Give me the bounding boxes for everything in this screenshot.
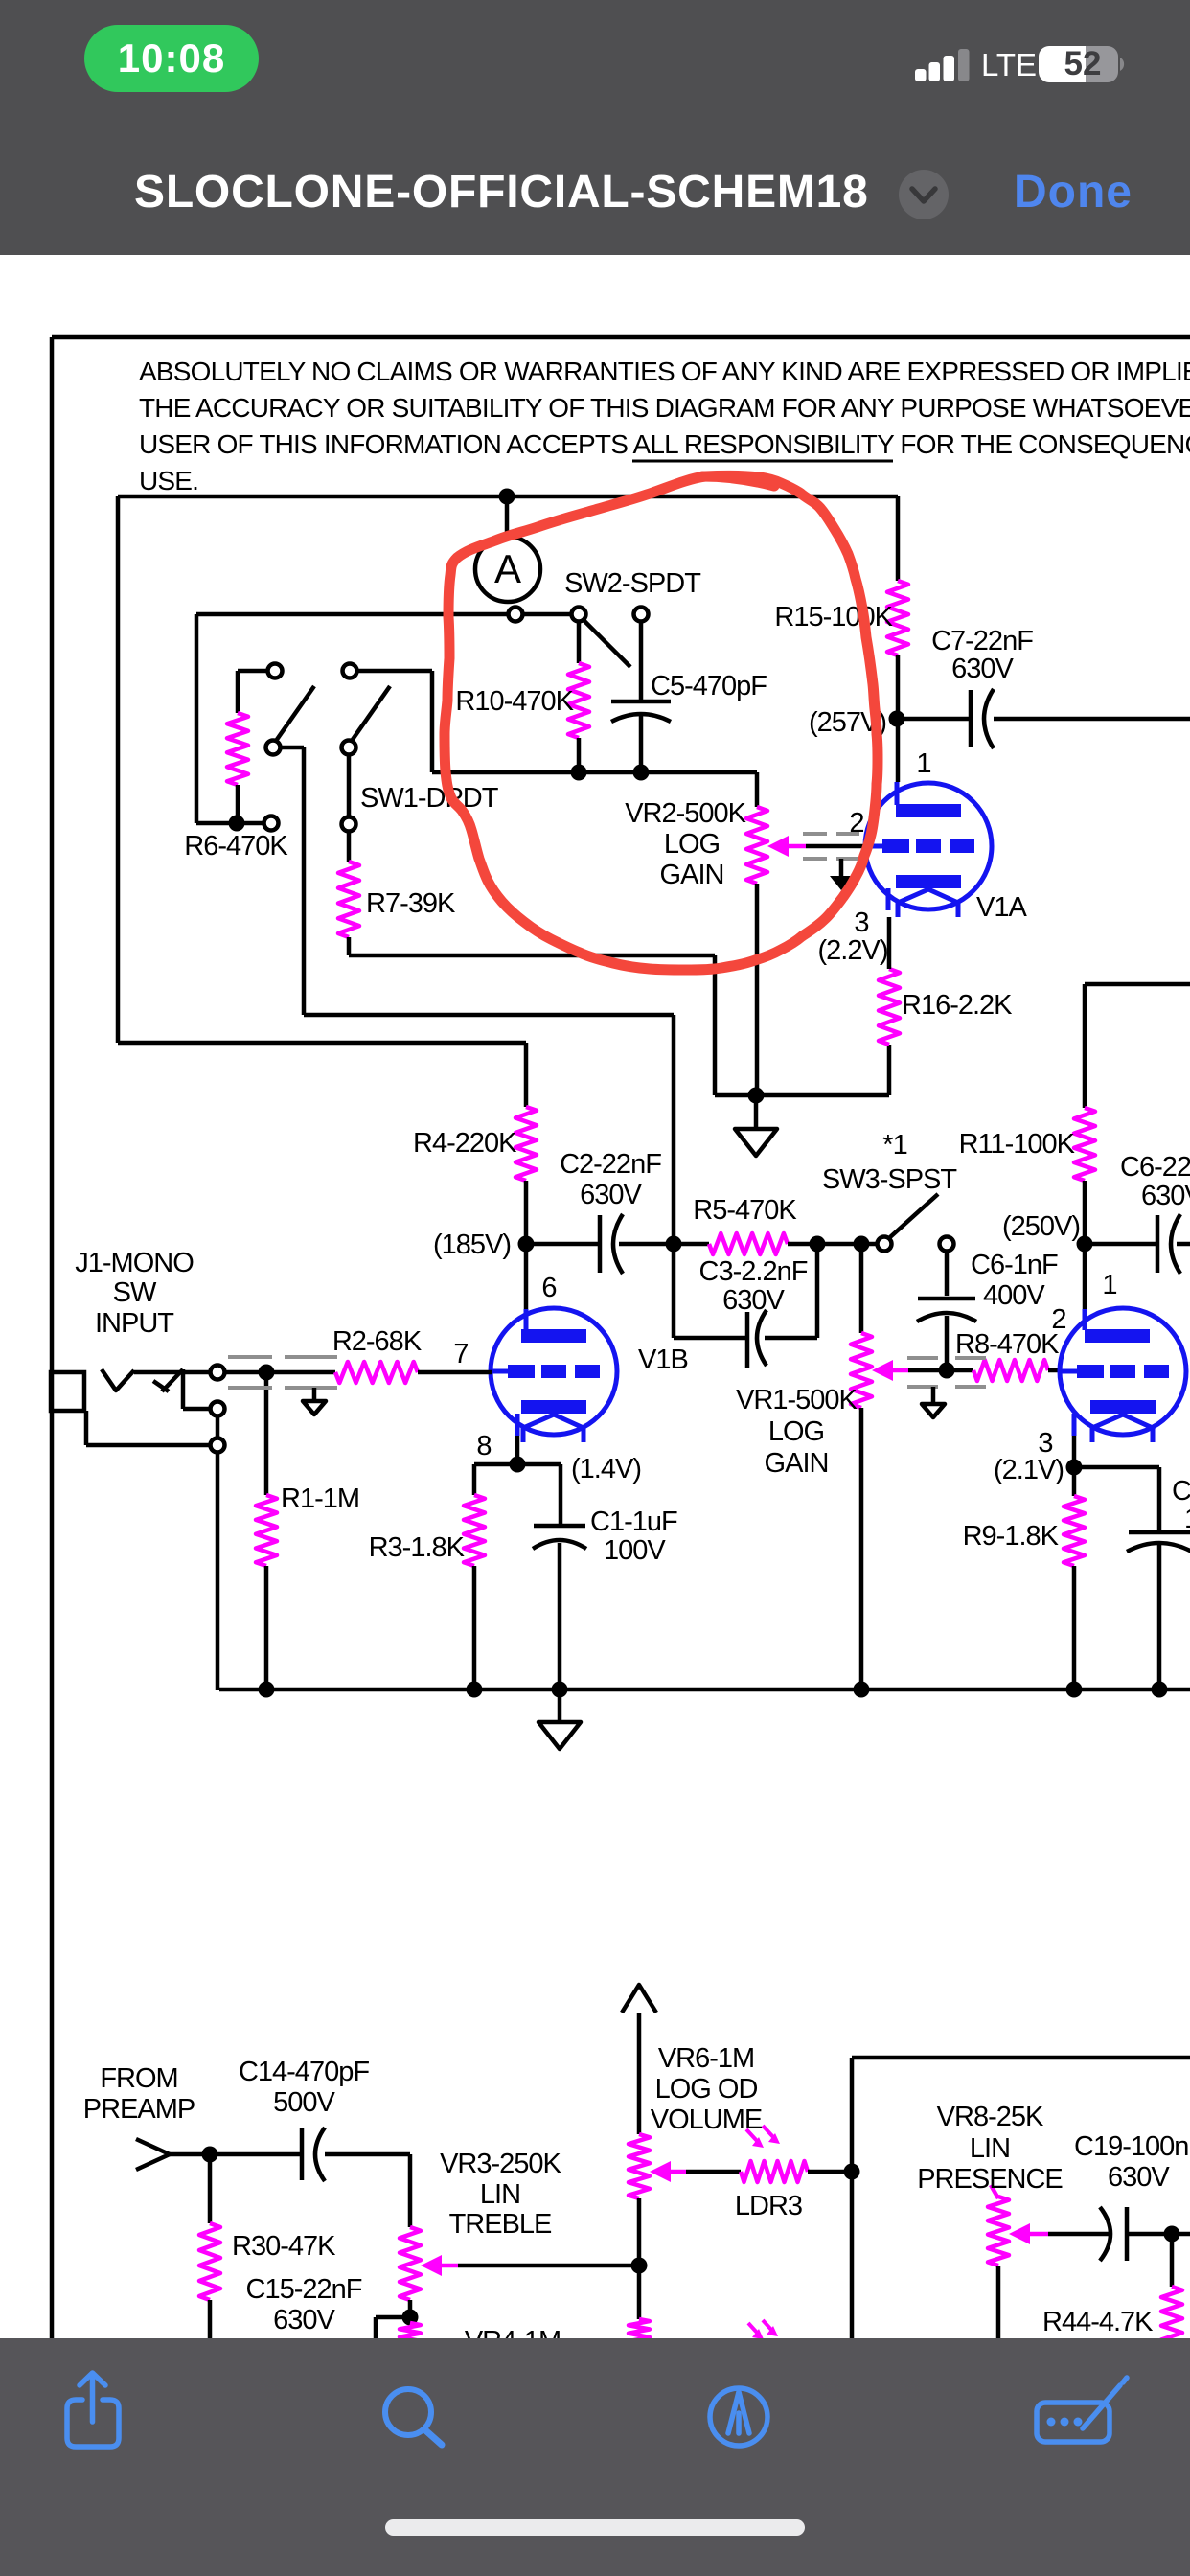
svg-text:VR2-500K: VR2-500K	[625, 798, 746, 829]
svg-text:SW2-SPDT: SW2-SPDT	[564, 568, 701, 599]
svg-text:GAIN: GAIN	[765, 1448, 829, 1479]
svg-text:R4-220K: R4-220K	[413, 1128, 517, 1159]
svg-text:1: 1	[1102, 1270, 1116, 1300]
svg-text:R10-470K: R10-470K	[455, 686, 574, 717]
svg-text:INPUT: INPUT	[95, 1308, 174, 1339]
svg-text:630V: 630V	[1141, 1181, 1190, 1211]
svg-text:LOG: LOG	[664, 829, 720, 860]
svg-text:LTE: LTE	[981, 47, 1037, 82]
svg-text:C6-1nF: C6-1nF	[971, 1250, 1058, 1280]
svg-text:USE.: USE.	[139, 466, 198, 495]
svg-text:THE ACCURACY OR SUITABILITY OF: THE ACCURACY OR SUITABILITY OF THIS DIAG…	[139, 393, 1190, 423]
svg-text:C19-100nF: C19-100nF	[1074, 2131, 1190, 2162]
svg-text:VR1-500K: VR1-500K	[736, 1385, 858, 1415]
svg-text:GAIN: GAIN	[660, 860, 724, 890]
svg-text:LIN: LIN	[480, 2179, 520, 2210]
svg-text:(2.2V): (2.2V)	[818, 935, 888, 966]
svg-text:R44-4.7K: R44-4.7K	[1042, 2307, 1154, 2337]
svg-text:*1: *1	[882, 1130, 906, 1161]
svg-text:PRESENCE: PRESENCE	[917, 2164, 1063, 2195]
svg-text:V1B: V1B	[638, 1345, 688, 1375]
svg-text:V1A: V1A	[976, 892, 1027, 923]
svg-text:400V: 400V	[983, 1280, 1045, 1311]
svg-text:A: A	[494, 546, 521, 591]
svg-text:R6-470K: R6-470K	[184, 831, 288, 862]
svg-text:USER OF THIS INFORMATION ACCEP: USER OF THIS INFORMATION ACCEPTS ALL RES…	[139, 429, 1190, 459]
svg-text:C5-470pF: C5-470pF	[651, 671, 767, 701]
svg-text:R3-1.8K: R3-1.8K	[369, 1532, 466, 1563]
svg-text:(185V): (185V)	[433, 1230, 511, 1260]
svg-text:R8-470K: R8-470K	[955, 1329, 1060, 1360]
svg-text:C15-22nF: C15-22nF	[246, 2274, 362, 2305]
svg-text:PREAMP: PREAMP	[83, 2094, 195, 2125]
svg-text:LDR3: LDR3	[735, 2191, 802, 2221]
svg-text:C6-22nF: C6-22nF	[1120, 1152, 1190, 1183]
svg-text:SW3-SPST: SW3-SPST	[822, 1164, 958, 1195]
svg-text:LOG OD: LOG OD	[655, 2074, 758, 2104]
svg-text:LOG: LOG	[768, 1416, 824, 1447]
svg-text:FROM: FROM	[100, 2063, 177, 2094]
svg-text:1: 1	[916, 748, 930, 779]
svg-text:(1.4V): (1.4V)	[571, 1454, 641, 1484]
svg-text:8: 8	[476, 1431, 491, 1461]
svg-text:52: 52	[1064, 45, 1102, 82]
svg-text:630V: 630V	[273, 2305, 335, 2335]
svg-text:R30-47K: R30-47K	[232, 2231, 336, 2262]
svg-text:630V: 630V	[722, 1285, 785, 1316]
svg-text:R1-1M: R1-1M	[281, 1483, 359, 1514]
svg-text:SW1-DPDT: SW1-DPDT	[360, 783, 499, 814]
svg-text:R16-2.2K: R16-2.2K	[902, 990, 1013, 1021]
svg-text:R11-100K: R11-100K	[959, 1129, 1076, 1160]
svg-text:630V: 630V	[580, 1180, 642, 1210]
svg-text:Done: Done	[1014, 167, 1133, 218]
svg-text:SW: SW	[113, 1277, 157, 1308]
svg-text:C7-22nF: C7-22nF	[931, 626, 1033, 656]
svg-text:3: 3	[854, 908, 868, 938]
svg-text:VR6-1M: VR6-1M	[658, 2043, 754, 2074]
svg-text:J1-MONO: J1-MONO	[75, 1248, 194, 1278]
svg-text:630V: 630V	[1108, 2162, 1170, 2193]
svg-text:ABSOLUTELY NO CLAIMS OR WARRAN: ABSOLUTELY NO CLAIMS OR WARRANTIES OF AN…	[139, 356, 1190, 386]
svg-text:R15-100K: R15-100K	[774, 602, 893, 632]
svg-text:C4-1uF: C4-1uF	[1172, 1476, 1190, 1506]
svg-text:VR8-25K: VR8-25K	[937, 2102, 1044, 2132]
svg-text:R5-470K: R5-470K	[693, 1195, 797, 1226]
svg-text:SLOCLONE-OFFICIAL-SCHEM18: SLOCLONE-OFFICIAL-SCHEM18	[134, 167, 869, 218]
svg-text:(250V): (250V)	[1002, 1211, 1080, 1242]
svg-text:6: 6	[541, 1273, 556, 1303]
svg-text:2: 2	[849, 808, 863, 839]
svg-text:LIN: LIN	[970, 2133, 1010, 2164]
svg-text:(2.1V): (2.1V)	[994, 1455, 1064, 1485]
svg-text:C2-22nF: C2-22nF	[560, 1149, 661, 1180]
svg-text:TREBLE: TREBLE	[449, 2209, 552, 2240]
svg-text:C14-470pF: C14-470pF	[239, 2057, 369, 2087]
svg-text:100V: 100V	[1184, 1504, 1190, 1534]
svg-text:VOLUME: VOLUME	[651, 2104, 763, 2135]
svg-text:C1-1uF: C1-1uF	[590, 1506, 677, 1537]
svg-text:C3-2.2nF: C3-2.2nF	[699, 1256, 808, 1287]
svg-text:R9-1.8K: R9-1.8K	[963, 1521, 1060, 1552]
svg-text:VR3-250K: VR3-250K	[440, 2149, 561, 2179]
svg-text:7: 7	[453, 1339, 468, 1369]
svg-text:R2-68K: R2-68K	[332, 1326, 423, 1357]
svg-text:R7-39K: R7-39K	[366, 888, 456, 919]
svg-text:500V: 500V	[273, 2087, 335, 2118]
svg-text:100V: 100V	[604, 1535, 666, 1566]
svg-text:630V: 630V	[951, 654, 1014, 684]
